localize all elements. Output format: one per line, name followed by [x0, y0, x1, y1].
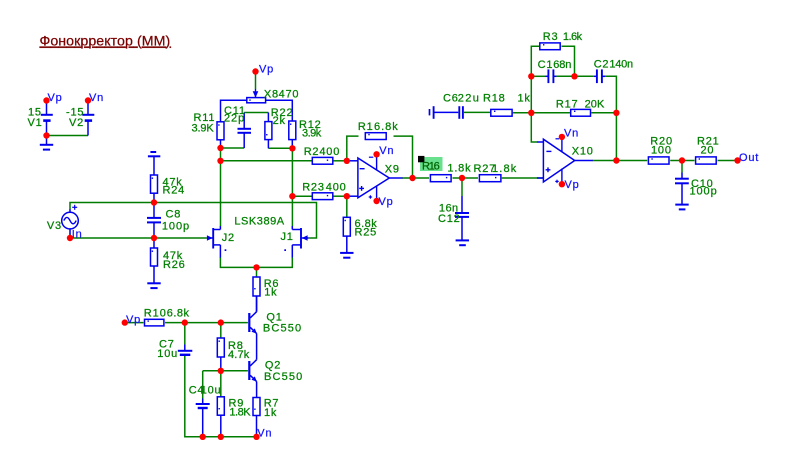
capacitor C7 10u	[184, 345, 186, 351]
svg-text:Vp: Vp	[565, 179, 580, 191]
svg-text:BC550: BC550	[264, 371, 303, 383]
wire C7 column upper	[184, 323, 186, 345]
wire J1 drain column	[291, 148, 293, 226]
svg-text:400: 400	[326, 181, 347, 193]
node X9 Vp pin	[373, 198, 379, 204]
node X9 output	[409, 175, 415, 181]
wire V1 V2 common	[47, 135, 89, 137]
wire C1 left lead	[531, 75, 545, 77]
wire R17 left	[531, 112, 570, 114]
resistor R25 6.8k	[343, 217, 350, 236]
wire R21 to Out	[718, 160, 738, 162]
node C1 right	[571, 73, 577, 79]
wire base row R10 to Q1 base	[165, 322, 248, 324]
node Vn at V2	[85, 97, 91, 103]
svg-text:R17: R17	[556, 98, 579, 110]
node X9 inverting input	[344, 158, 350, 164]
node Vp at V1	[43, 97, 49, 103]
resistor R12 3.9k	[289, 121, 296, 140]
wire C11 top to R22 top	[244, 112, 268, 114]
node X10 Vn pin	[559, 134, 565, 140]
wire X9 output to R16	[402, 177, 429, 179]
resistor R2 400	[312, 157, 333, 164]
svg-text:Vp: Vp	[126, 314, 141, 326]
wire X10 output feedback vertical	[615, 113, 617, 161]
wire R3 right down to C1 node	[562, 46, 575, 76]
svg-text:1k: 1k	[264, 407, 277, 419]
node Vp at X8	[252, 68, 258, 74]
svg-text:100p: 100p	[690, 186, 718, 198]
svg-text:1.8k: 1.8k	[492, 163, 517, 175]
svg-text:20K: 20K	[585, 98, 606, 110]
svg-text:X10: X10	[572, 146, 594, 158]
node C7 base row	[182, 319, 188, 325]
wire J2 drain column	[220, 148, 222, 226]
wire X10 output row	[593, 160, 648, 162]
node X10 output	[613, 157, 619, 163]
node R12 R22 junction	[289, 145, 295, 151]
node R24 top rail	[151, 199, 157, 205]
svg-text:R18: R18	[483, 93, 506, 105]
node In at V3	[67, 235, 73, 241]
capacitor C1 68n	[546, 75, 548, 77]
op-amp X10	[543, 139, 574, 182]
flipped ground above R24	[150, 151, 156, 153]
wire top rail V3 to J1 gate loop	[70, 203, 317, 239]
svg-text:20: 20	[701, 145, 715, 157]
wire R23 row left	[292, 195, 313, 197]
resistor R27 1.8k	[479, 175, 501, 182]
svg-text:C1: C1	[538, 59, 554, 71]
selection handle square	[418, 156, 424, 162]
wire R2 row left	[221, 160, 314, 162]
wire R22 bottom to R12 node	[268, 147, 292, 149]
wire left feedback column to R3 and X10 minus	[531, 46, 539, 142]
resistor R6 1k	[253, 277, 260, 296]
svg-text:J2: J2	[222, 232, 235, 244]
ground under V1	[46, 138, 48, 145]
JFET J2	[212, 228, 214, 249]
svg-text:BC550: BC550	[263, 322, 302, 334]
resistor R16 1.8k	[430, 175, 451, 182]
svg-text:68n: 68n	[553, 59, 572, 71]
svg-text:C2: C2	[594, 59, 610, 71]
svg-text:R25: R25	[355, 226, 378, 238]
wire R18 to left feedback column	[513, 112, 532, 114]
svg-text:X8: X8	[264, 88, 279, 100]
op-amp X9	[358, 158, 389, 198]
svg-text:C6: C6	[443, 92, 459, 104]
svg-text:100p: 100p	[162, 221, 190, 233]
svg-text:1.8K: 1.8K	[229, 407, 251, 419]
svg-text:R1: R1	[358, 121, 374, 133]
svg-text:4.7k: 4.7k	[228, 349, 250, 361]
svg-text:3.9k: 3.9k	[302, 128, 322, 140]
svg-text:1.8k: 1.8k	[447, 163, 471, 175]
node C4 rail	[200, 434, 206, 440]
wire Vp to X8 wiper	[255, 72, 257, 90]
node C1 left	[528, 73, 534, 79]
wire R25 top lead	[346, 196, 348, 217]
svg-text:R26: R26	[163, 259, 186, 271]
potentiometer X8 470	[255, 89, 257, 98]
wire C1 right to C2 node	[556, 75, 574, 77]
resistor R23 400	[312, 193, 333, 200]
svg-text:6.8k: 6.8k	[374, 121, 399, 133]
node R26 In row	[151, 235, 157, 241]
resistor R20 100	[648, 157, 669, 164]
wire R6 top lead	[256, 267, 258, 277]
wire In row V3 to J2 gate	[70, 234, 207, 239]
wire R17 right	[591, 112, 616, 114]
resistor R8 4.7k	[217, 338, 224, 357]
svg-text:X9: X9	[385, 164, 400, 176]
resistor R24 47k	[151, 175, 158, 193]
node R23 row left	[289, 193, 295, 199]
svg-text:22p: 22p	[224, 113, 245, 125]
svg-text:3.9K: 3.9K	[192, 122, 215, 134]
svg-text:R3: R3	[543, 31, 559, 43]
svg-text:6.8k: 6.8k	[167, 307, 190, 319]
sine source V3	[69, 209, 71, 212]
node R8 R9 Q2 base	[218, 368, 224, 374]
svg-text:R23: R23	[302, 181, 325, 193]
node Vp bottom	[122, 319, 128, 325]
svg-text:LSK389A: LSK389A	[234, 216, 285, 228]
svg-text:10u: 10u	[201, 384, 222, 396]
wire X9 feedback right	[394, 136, 413, 178]
node R9 rail	[218, 434, 224, 440]
wire R2 to X9 inverting input	[332, 160, 347, 162]
svg-text:Vp: Vp	[379, 196, 394, 208]
node R18 R17 junction	[528, 110, 534, 116]
wire Vp to R10	[125, 322, 144, 324]
capacitor C8 100p	[153, 203, 155, 218]
transistor Q1 BC550	[248, 313, 250, 332]
svg-text:Vn: Vn	[89, 92, 104, 104]
capacitor C11 22p	[243, 113, 245, 129]
wire X9 feedback left	[347, 136, 359, 161]
node R20 R21 C10	[679, 157, 685, 163]
node X10 Vp pin	[559, 181, 565, 187]
svg-text:Фонокрректор (ММ): Фонокрректор (ММ)	[40, 34, 172, 50]
node V1 V2 junction	[43, 132, 49, 138]
capacitor C10 100p	[681, 173, 683, 179]
wire R11 node to C11 bottom	[221, 147, 245, 149]
svg-text:R2: R2	[304, 146, 320, 158]
ground under R26	[153, 266, 155, 283]
svg-text:Out: Out	[739, 152, 759, 164]
svg-text:1k: 1k	[518, 93, 531, 105]
battery V2	[87, 101, 89, 114]
node R2 row left	[217, 158, 223, 164]
svg-text:1k: 1k	[264, 286, 277, 298]
selection highlight for R16	[420, 157, 443, 171]
svg-text:In: In	[72, 229, 83, 241]
ground under C12	[456, 239, 469, 241]
node R11 C11 junction	[217, 145, 223, 151]
resistor R7 1k	[253, 398, 260, 416]
resistor R9 1.8K	[217, 397, 224, 415]
node R8 base row	[218, 319, 224, 325]
wire C6 to R18	[464, 111, 490, 113]
svg-text:22u: 22u	[458, 92, 480, 104]
wire C7 column lower to Vn rail	[185, 355, 257, 437]
wire Q2 base row	[203, 370, 248, 372]
svg-text:C8: C8	[166, 208, 182, 220]
capacitor C4 10u	[202, 399, 204, 404]
wire C4 top lead	[202, 371, 204, 399]
JFET J1	[300, 228, 302, 249]
node R17 right	[613, 110, 619, 116]
svg-text:100: 100	[651, 145, 672, 157]
ground under C10	[675, 204, 688, 206]
svg-text:Vp: Vp	[48, 92, 63, 104]
capacitor C6 22u	[429, 109, 431, 115]
resistor R26 47k	[153, 238, 155, 248]
transistor Q2 BC550	[248, 361, 250, 380]
svg-text:Vn: Vn	[379, 145, 394, 157]
svg-text:R24: R24	[163, 185, 186, 197]
svg-text:V2: V2	[69, 117, 84, 129]
wire R20 to R21	[670, 160, 694, 162]
svg-text:1.6k: 1.6k	[563, 31, 583, 43]
wire R27 to X10 plus input	[502, 177, 544, 179]
wire JFET common source rail	[220, 257, 292, 267]
resistor R17 20K	[571, 109, 591, 116]
capacitor C12 16n	[461, 196, 463, 212]
node X9 Vn pin	[373, 151, 379, 157]
svg-text:Q2: Q2	[265, 359, 281, 371]
wire C2 left lead	[575, 75, 594, 77]
battery V1	[46, 101, 48, 114]
wire R8 top lead	[220, 323, 222, 338]
wire R16 to R27 node	[453, 177, 479, 179]
node Out	[734, 157, 740, 163]
wire C12 top lead	[461, 178, 463, 196]
capacitor C2 140n	[594, 75, 596, 77]
svg-text:Vp: Vp	[259, 64, 274, 76]
resistor R22 2k	[267, 113, 269, 122]
svg-text:10u: 10u	[157, 348, 178, 360]
node JFET sources R6	[253, 264, 259, 270]
resistor R21 20	[696, 157, 717, 164]
wire R9 top lead	[220, 371, 222, 397]
svg-text:140n: 140n	[609, 59, 634, 71]
wire C10 top lead	[681, 161, 683, 173]
svg-text:R16: R16	[422, 160, 441, 172]
node R7 rail Vn	[253, 434, 259, 440]
svg-text:400: 400	[319, 146, 340, 158]
svg-text:R10: R10	[144, 307, 167, 319]
wire R23 to X9 plus input	[332, 195, 347, 197]
svg-text:470: 470	[279, 88, 300, 100]
svg-text:Vn: Vn	[564, 127, 579, 139]
resistor R3 1.6k	[540, 43, 560, 50]
node R16 R27 C12	[459, 175, 465, 181]
svg-text:V3: V3	[47, 220, 62, 232]
svg-text:2k: 2k	[273, 115, 286, 127]
resistor R10 6.8k	[145, 319, 164, 326]
wire C2 right down to R17 node	[605, 76, 617, 113]
svg-text:V1: V1	[28, 117, 43, 129]
svg-text:J1: J1	[281, 231, 294, 243]
ground under R25	[346, 236, 348, 252]
resistor R1 6.8k feedback	[365, 133, 386, 140]
resistor R11 3.9K	[217, 122, 224, 140]
svg-text:C12: C12	[438, 213, 461, 225]
resistor R18 1k	[491, 109, 512, 116]
node X9 plus input	[344, 193, 350, 199]
